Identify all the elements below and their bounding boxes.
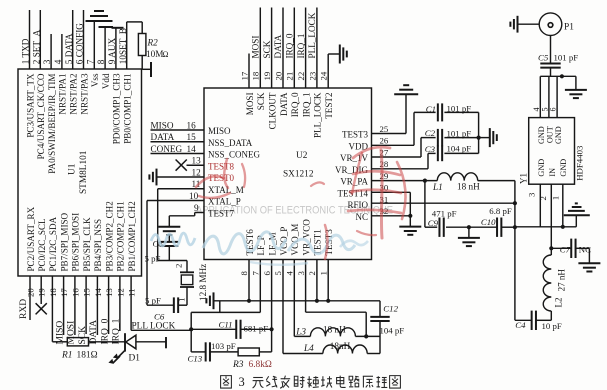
svg-text:181Ω: 181Ω <box>77 351 98 361</box>
svg-text:12: 12 <box>192 167 202 177</box>
svg-text:IRQ_0: IRQ_0 <box>290 92 300 117</box>
wire U2 pin 11 XTAL_M to crystal <box>158 179 204 261</box>
wire P1 to ground <box>518 23 540 25</box>
capacitor C9 471pF <box>428 208 469 237</box>
IC U2 SX1212 body <box>204 88 372 260</box>
svg-text:22: 22 <box>296 72 306 81</box>
svg-text:10SET_B: 10SET_B <box>118 28 128 64</box>
svg-text:IRQ_0: IRQ_0 <box>100 318 110 344</box>
svg-text:3: 3 <box>239 375 245 389</box>
filter Y1 HDF4403 body <box>519 118 585 185</box>
svg-text:Vss: Vss <box>90 73 100 87</box>
svg-text:HDF4403: HDF4403 <box>574 145 584 181</box>
svg-text:MISO: MISO <box>55 321 65 345</box>
svg-text:RXD: RXD <box>19 299 29 319</box>
svg-text:CLKOUT: CLKOUT <box>267 92 277 129</box>
svg-text:L1: L1 <box>432 182 443 192</box>
svg-text:12.8 MHz: 12.8 MHz <box>198 264 208 301</box>
svg-text:PLL_LOCK: PLL_LOCK <box>313 92 323 138</box>
red stamp strokes <box>196 147 406 259</box>
svg-text:18nH: 18nH <box>330 341 351 351</box>
svg-text:7: 7 <box>251 271 261 276</box>
net wire DATA at U2 pin 15 <box>151 132 205 142</box>
svg-text:STM8L101: STM8L101 <box>79 150 89 194</box>
net wire CONEG at U2 pin 14 <box>151 144 205 154</box>
wire junction at C9/C10 to ground <box>467 225 471 238</box>
wire C5 to Y1 top pins <box>540 74 576 90</box>
svg-text:6: 6 <box>549 107 558 111</box>
ground below C7 <box>578 263 600 271</box>
wire Y1 pin 4 <box>532 76 541 117</box>
svg-text:D1: D1 <box>129 354 141 364</box>
svg-text:9 AUX: 9 AUX <box>107 38 117 65</box>
wire U1 pin 13 <box>100 276 110 345</box>
svg-text:NC: NC <box>579 245 591 255</box>
svg-text:6.8kΩ: 6.8kΩ <box>249 360 272 370</box>
U1 internal bottom pin names <box>26 201 137 272</box>
svg-text:C5: C5 <box>538 53 549 63</box>
svg-text:C10: C10 <box>481 217 496 227</box>
svg-text:DATA: DATA <box>273 34 283 58</box>
svg-text:R3: R3 <box>232 360 244 370</box>
U1 bottom pin numbers 20-11 <box>25 288 136 297</box>
no-connect X at U2 pin 13 <box>176 156 204 171</box>
svg-text:L2: L2 <box>554 298 564 308</box>
wire U2 pin 5 VCO_P <box>282 260 284 354</box>
svg-text:3: 3 <box>296 271 306 276</box>
svg-text:2: 2 <box>174 264 184 268</box>
net PLL LOCK wire <box>131 322 191 332</box>
net label RXD at U1 pin 20 <box>19 299 29 319</box>
svg-text:NSS_CONEG: NSS_CONEG <box>208 150 261 160</box>
ground below C9-C10 node <box>458 238 480 246</box>
resistor R3 6.8kohm <box>232 348 272 370</box>
svg-text:PLL LOCK: PLL LOCK <box>132 322 176 332</box>
wire U2 pin 26 VDD <box>372 112 436 145</box>
svg-text:101 pF: 101 pF <box>447 103 472 113</box>
svg-text:DATA: DATA <box>89 320 99 345</box>
svg-text:IRQ_1: IRQ_1 <box>301 93 311 118</box>
wire U2 pin 12 to ground <box>157 167 204 177</box>
capacitor C12 104pF <box>370 301 404 354</box>
wire U2 pin 24 to ground <box>328 54 339 88</box>
svg-text:Ω: Ω <box>163 50 169 59</box>
svg-text:18: 18 <box>251 71 261 80</box>
wire U1 pin 12 <box>112 276 122 345</box>
wire U1 pin 8 (8) <box>96 27 106 69</box>
wire U2 pin 8 TEST6 <box>248 260 250 301</box>
svg-text:IRQ_0: IRQ_0 <box>285 33 295 58</box>
svg-text:2: 2 <box>538 196 548 200</box>
inductor L1 18nH <box>432 173 515 192</box>
wire U2 pin 31 RFIO <box>372 202 515 204</box>
gray watermark text <box>196 205 393 217</box>
svg-text:24: 24 <box>319 71 329 80</box>
svg-text:4: 4 <box>285 271 295 276</box>
wire U2 pin 1 TEST3 <box>327 260 329 301</box>
svg-text:1 TXD: 1 TXD <box>21 38 31 64</box>
net wire IRQ_0 at U2 pin 21 <box>285 8 295 89</box>
svg-text:2: 2 <box>307 271 317 275</box>
ground below U2 pin 32 <box>399 227 421 235</box>
wire U1 pin 16 <box>67 276 77 345</box>
svg-text:GND: GND <box>537 159 546 177</box>
blue script watermark <box>151 232 368 265</box>
ground right of C5 <box>565 90 587 98</box>
svg-text:PA0/SWIM/BEEP/IR_TIM: PA0/SWIM/BEEP/IR_TIM <box>47 74 57 174</box>
svg-text:8: 8 <box>239 271 249 276</box>
svg-text:MISO: MISO <box>151 120 174 130</box>
svg-text:23: 23 <box>307 71 317 80</box>
svg-text:25: 25 <box>380 124 389 134</box>
wire U1 pin 10 (10SET_B) <box>118 22 142 69</box>
svg-text:16: 16 <box>187 120 197 130</box>
inductor L2 27nH <box>543 248 566 320</box>
resistor R1 181ohm <box>52 338 97 361</box>
svg-text:27 nH: 27 nH <box>557 269 567 292</box>
wire Y1 pin 2 to L2 <box>538 184 551 248</box>
svg-text:C2: C2 <box>425 128 436 138</box>
wire U1 pin 20 <box>29 276 31 320</box>
svg-text:1: 1 <box>318 271 328 275</box>
capacitor C10 6.8pF <box>469 206 515 237</box>
net wire PLL_LOCK at U2 pin 23 <box>307 8 317 89</box>
inductor L3 18nH <box>294 325 380 339</box>
svg-text:TEST2: TEST2 <box>324 92 334 119</box>
svg-text:L4: L4 <box>303 343 314 353</box>
capacitor C2 101pF <box>425 128 479 147</box>
svg-text:PB1/COMP1_CH2: PB1/COMP1_CH2 <box>127 201 137 272</box>
wire Y1 pin 1 <box>550 184 562 227</box>
svg-text:IRQ_1: IRQ_1 <box>112 318 122 344</box>
svg-text:Y1: Y1 <box>519 173 529 184</box>
svg-text:TEST3: TEST3 <box>342 130 368 140</box>
resistor R2 10M <box>138 34 168 78</box>
svg-text:PC0/I2C_SCL: PC0/I2C_SCL <box>37 218 47 272</box>
wire U2 pin 10 XTAL_P <box>147 191 204 305</box>
svg-text:NC: NC <box>355 212 368 222</box>
svg-text:NRST/PA1: NRST/PA1 <box>58 74 68 115</box>
U1 internal top pin names <box>25 73 132 174</box>
svg-text:L3: L3 <box>295 326 306 336</box>
capacitor C3 104pF <box>425 144 479 162</box>
wire Y1 pin 5 <box>541 76 550 117</box>
net wire DATA at U2 pin 20 <box>273 8 283 89</box>
wire U1 pin 6 (6 CONFIG) <box>75 10 85 69</box>
svg-text:PD0/COMP1_CH3: PD0/COMP1_CH3 <box>112 73 122 144</box>
ground above U2 pin 25 <box>394 85 418 94</box>
svg-text:DATA: DATA <box>151 132 175 142</box>
ground above right of Y1 <box>564 203 590 215</box>
ground right of C2 <box>490 128 497 147</box>
wire Y1 pin 6 <box>549 76 558 117</box>
wire U2 pin 4 VCO_M <box>293 260 295 337</box>
connector P1 <box>539 13 574 36</box>
svg-text:5 DATA: 5 DATA <box>64 33 74 64</box>
svg-text:VR_DIG: VR_DIG <box>335 165 368 175</box>
svg-text:IN: IN <box>548 168 557 177</box>
wire VR_PA branch down to C9 <box>425 181 437 228</box>
wire U1 pin 18 <box>51 276 53 342</box>
svg-text:TEST8: TEST8 <box>208 161 234 171</box>
svg-text:21: 21 <box>285 72 295 81</box>
wire U1 pin 5 (5 DATA) <box>64 10 74 69</box>
svg-text:P1: P1 <box>564 23 574 33</box>
svg-text:26: 26 <box>380 136 389 146</box>
ground at crystal / U2 pin 9 <box>158 227 180 242</box>
wire U1 pin 9 (9 AUX) <box>107 28 117 69</box>
svg-text:PB2/COMP2_CH1: PB2/COMP2_CH1 <box>116 201 126 271</box>
svg-text:C7: C7 <box>560 244 571 254</box>
capacitor C4 10pF <box>515 311 562 331</box>
svg-text:PB5/SPI_CLK: PB5/SPI_CLK <box>82 217 92 272</box>
svg-text:13: 13 <box>192 156 202 166</box>
svg-text:NSS_DATA: NSS_DATA <box>208 138 253 148</box>
svg-text:GND: GND <box>554 126 563 144</box>
wire U1 pin 19 <box>40 276 42 304</box>
svg-text:C4: C4 <box>515 320 526 330</box>
svg-text:8: 8 <box>96 59 106 64</box>
svg-text:681 pF: 681 pF <box>244 324 269 334</box>
svg-text:101 pF: 101 pF <box>447 128 472 138</box>
svg-text:PC3/USART_TX: PC3/USART_TX <box>25 73 35 138</box>
caption figure 3 title <box>221 375 401 389</box>
svg-text:9: 9 <box>194 203 199 213</box>
svg-text:6 CONFIG: 6 CONFIG <box>75 23 85 64</box>
svg-text:R1: R1 <box>61 351 72 361</box>
ground left of U2 pin 12 <box>149 169 156 186</box>
wire Y1 pin 3 <box>526 184 540 227</box>
capacitor C8 5pF <box>145 239 179 264</box>
wire U2 pin 3 VR_VCO <box>306 260 367 337</box>
svg-text:IRQ_1: IRQ_1 <box>296 33 306 58</box>
LED D1 <box>89 333 167 363</box>
svg-text:U1: U1 <box>68 163 78 175</box>
svg-text:6: 6 <box>262 271 272 276</box>
ground bus below U2 <box>214 299 381 303</box>
svg-text:1: 1 <box>550 196 560 200</box>
svg-text:C3: C3 <box>425 144 436 154</box>
svg-text:SCK: SCK <box>262 40 272 58</box>
svg-text:PB4/SPI_NSS: PB4/SPI_NSS <box>93 219 103 272</box>
capacitor C6 5pF <box>145 296 187 322</box>
wire U1 pin 11 <box>130 276 132 330</box>
svg-text:NRST/PA3: NRST/PA3 <box>79 73 89 115</box>
capacitor C5 101pF <box>538 36 578 77</box>
svg-text:C6: C6 <box>154 312 165 322</box>
wire RF node to Y1 pin 3 / pin 1 <box>515 215 576 229</box>
svg-text:MOSI: MOSI <box>245 93 255 116</box>
IC U1 STM8L101 body <box>18 69 142 276</box>
wire U1 pin 1 (1 TXD) <box>21 10 31 69</box>
U2 internal top pin names <box>245 92 334 138</box>
svg-text:5 pF: 5 pF <box>145 254 161 264</box>
svg-text:5 pF: 5 pF <box>145 296 161 306</box>
net wire IRQ_1 at U2 pin 22 <box>296 8 306 89</box>
svg-text:U2: U2 <box>296 151 308 161</box>
wire stub U2 pin 17 <box>248 54 250 89</box>
U2 bottom pin numbers 8-1 <box>239 271 328 276</box>
svg-text:PC4/USART_CK/CCO: PC4/USART_CK/CCO <box>36 73 46 159</box>
capacitor C1 101pF <box>426 103 479 121</box>
svg-text:PC2/USART_RX: PC2/USART_RX <box>26 206 36 271</box>
svg-text:10: 10 <box>189 191 199 201</box>
svg-text:DATA: DATA <box>279 92 289 116</box>
wire C11 node down to C13/R3 <box>191 312 271 352</box>
svg-text:104 pF: 104 pF <box>380 325 405 335</box>
capacitor C7 NC <box>549 239 591 264</box>
wire U1 pin 4 (4) <box>53 34 63 69</box>
svg-text:TEST7: TEST7 <box>208 209 234 219</box>
ground left end of bus <box>206 292 213 309</box>
svg-text:PC1/I2C_SDA: PC1/I2C_SDA <box>48 216 58 271</box>
U2 internal right pin names <box>335 130 368 222</box>
U2 internal left pin names <box>208 126 261 219</box>
svg-text:18 nH: 18 nH <box>323 325 346 335</box>
no-connect X at U1 pin 19 <box>36 303 47 314</box>
svg-text:C11: C11 <box>219 320 233 330</box>
svg-text:7: 7 <box>85 59 95 64</box>
capacitor C11 681pF <box>189 320 274 339</box>
wire U2 pin 7 LF_P <box>191 260 260 313</box>
svg-text:20: 20 <box>273 71 283 80</box>
wire U1 pin 14 <box>89 276 99 345</box>
svg-text:C9: C9 <box>428 218 439 228</box>
crystal X1 12.8MHz <box>174 261 209 306</box>
terminal bar at U1 pin 9 (AUX) <box>112 27 124 29</box>
wire U1 pin 7 (7) <box>85 21 95 69</box>
svg-text:104 pF: 104 pF <box>447 144 472 154</box>
svg-text:PB6/SPI_MOSI: PB6/SPI_MOSI <box>71 213 81 272</box>
svg-text:5: 5 <box>273 271 283 276</box>
U2 right pin numbers 25-32 <box>380 124 389 216</box>
svg-text:Vdd: Vdd <box>101 73 111 89</box>
wire U2 pin 25 TEST3 to ground <box>372 94 407 133</box>
wire U2 pin 32 NC to ground <box>372 214 413 227</box>
wire U2 pin 30 TEST14 <box>372 192 411 216</box>
svg-text:MISO: MISO <box>208 126 231 136</box>
svg-text:10M: 10M <box>146 49 163 59</box>
wire C1-C2-C3 common to ground <box>477 112 490 153</box>
svg-text:C12: C12 <box>383 303 398 313</box>
net wire SCK at U2 pin 19 <box>262 8 272 89</box>
svg-text:471 pF: 471 pF <box>432 208 457 218</box>
svg-text:SCK: SCK <box>78 326 88 345</box>
wire U1 pin 2 (2 SET_A) <box>31 10 41 69</box>
svg-text:6.8 pF: 6.8 pF <box>489 206 512 216</box>
svg-text:PLL_LOCK: PLL_LOCK <box>307 12 317 58</box>
svg-text:101 pF: 101 pF <box>554 53 579 63</box>
svg-text:GND: GND <box>559 159 568 177</box>
inductor L4 18nH <box>283 341 380 354</box>
wire U1 pin 15 <box>78 276 88 345</box>
ground at U1 pins 7-8 <box>86 11 114 27</box>
svg-text:SCK: SCK <box>256 92 266 110</box>
svg-text:PB3/COMP2_CH2: PB3/COMP2_CH2 <box>104 201 114 272</box>
wire U1 pin 3 (3) <box>42 34 52 69</box>
svg-text:R2: R2 <box>147 38 159 48</box>
wire U2 pin 6 LF_M <box>271 260 273 330</box>
svg-text:MOSI: MOSI <box>251 36 261 59</box>
net wire MISO at U2 pin 16 <box>151 120 205 130</box>
svg-text:14: 14 <box>187 144 197 154</box>
svg-text:15: 15 <box>187 132 197 142</box>
svg-text:PB7/SPI_MISO: PB7/SPI_MISO <box>59 212 69 271</box>
svg-text:3: 3 <box>42 59 52 64</box>
svg-text:PB0/COMP1_CH1: PB0/COMP1_CH1 <box>123 74 133 144</box>
wire node RF vertical <box>513 181 517 321</box>
svg-text:CONEG: CONEG <box>151 144 183 154</box>
wire U2 pin 2 TEST1 <box>316 260 318 301</box>
svg-text:SX1212: SX1212 <box>283 170 314 180</box>
svg-text:17: 17 <box>239 71 249 80</box>
svg-text:C1: C1 <box>426 104 436 114</box>
svg-text:3: 3 <box>526 192 536 197</box>
wire U1 pin 17 <box>55 276 65 345</box>
wire U2 pin 27 VR_1V <box>372 138 436 157</box>
svg-text:10 pF: 10 pF <box>542 321 562 331</box>
svg-text:C13: C13 <box>188 354 203 364</box>
svg-text:4: 4 <box>53 59 63 64</box>
ground left of P1 <box>510 16 517 33</box>
U2 top pin numbers 17-24 <box>239 71 328 80</box>
svg-text:18 nH: 18 nH <box>457 182 480 192</box>
svg-text:2 SET_A: 2 SET_A <box>31 29 41 64</box>
svg-text:19: 19 <box>262 71 272 80</box>
ground right of U2 pin 24 <box>340 45 347 64</box>
svg-text:VR_VCO: VR_VCO <box>301 219 311 256</box>
svg-text:MOSI: MOSI <box>67 321 77 345</box>
capacitor C13 103pF <box>188 341 239 364</box>
net wire MOSI at U2 pin 18 <box>251 8 261 89</box>
U2 internal bottom pin names <box>245 219 334 256</box>
svg-text:103 pF: 103 pF <box>211 341 236 351</box>
svg-text:NRST/PA2: NRST/PA2 <box>69 73 79 115</box>
wire U2 pin 29 VR_PA <box>372 179 438 183</box>
wire U2 pin 28 VR_DIG <box>372 153 436 168</box>
wire U2 pin 9 TEST7 to ground <box>169 203 204 227</box>
